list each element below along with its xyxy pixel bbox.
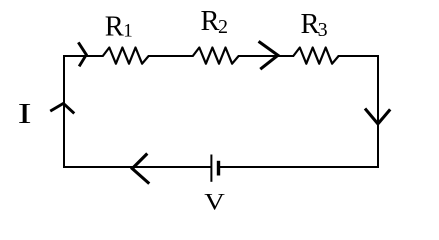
svg-text:R: R — [201, 6, 220, 37]
label R2 — [201, 6, 229, 38]
label I current — [18, 99, 32, 130]
label R1 — [105, 11, 133, 42]
current arrow on top wire before R3 — [260, 42, 278, 68]
wire top segment R1 to R2 — [148, 55, 194, 57]
svg-text:2: 2 — [218, 16, 228, 38]
label V voltage — [204, 190, 225, 215]
resistor R1 — [103, 48, 149, 64]
label R3 — [301, 9, 328, 41]
current arrow on bottom wire pointing left — [132, 155, 148, 183]
battery V short plate — [217, 161, 220, 176]
wire top segment R3 to corner — [338, 55, 379, 57]
svg-text:R: R — [105, 11, 124, 42]
resistor R2 — [193, 48, 239, 64]
resistor R3 — [293, 48, 338, 64]
battery V long plate — [210, 155, 212, 182]
current arrow on right wire pointing down — [366, 110, 389, 124]
svg-text:I: I — [18, 99, 32, 130]
wire bottom right segment — [220, 166, 379, 168]
svg-text:V: V — [204, 190, 225, 214]
wire top segment R2 to R3 — [238, 55, 294, 57]
wire right side — [377, 55, 379, 168]
svg-text:1: 1 — [123, 21, 133, 42]
wire left side — [63, 55, 65, 168]
current arrow on top wire near left corner — [79, 44, 86, 66]
svg-text:3: 3 — [318, 19, 328, 41]
wire top segment corner to R1 — [63, 55, 104, 57]
wire bottom left segment — [63, 166, 211, 168]
current arrow on left wire pointing up — [52, 103, 74, 112]
